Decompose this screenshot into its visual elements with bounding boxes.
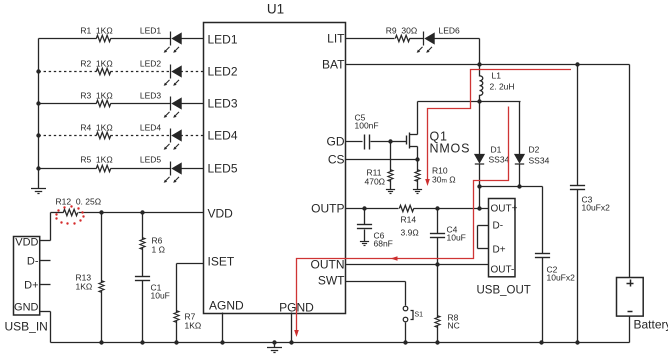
svg-text:1 Ω: 1 Ω [152, 245, 165, 255]
svg-text:LED2: LED2 [208, 65, 238, 79]
svg-text:D+: D+ [24, 280, 38, 292]
svg-text:1KΩ: 1KΩ [185, 321, 202, 331]
svg-text:NMOS: NMOS [430, 142, 471, 156]
svg-text:SS34: SS34 [489, 155, 510, 165]
svg-text:10uF: 10uF [447, 233, 466, 243]
svg-text:U1: U1 [267, 2, 284, 17]
svg-text:LED1: LED1 [208, 33, 238, 47]
svg-text:68nF: 68nF [374, 239, 393, 249]
svg-text:CS: CS [328, 153, 345, 167]
svg-text:OUT+: OUT+ [491, 204, 518, 215]
svg-text:BAT: BAT [322, 58, 345, 72]
svg-text:SS34: SS34 [529, 156, 550, 166]
svg-text:R9 30Ω: R9 30Ω [386, 26, 417, 36]
svg-text:LED4: LED4 [140, 123, 162, 133]
svg-text:OUT-: OUT- [491, 265, 515, 276]
svg-text:R4 1KΩ: R4 1KΩ [80, 123, 112, 133]
svg-text:OUTN: OUTN [311, 258, 345, 272]
svg-text:R14: R14 [401, 215, 417, 225]
svg-text:100nF: 100nF [355, 121, 379, 131]
svg-text:AGND: AGND [209, 299, 244, 313]
svg-text:D+: D+ [493, 245, 506, 256]
svg-text:R1 1KΩ: R1 1KΩ [80, 26, 112, 36]
svg-text:10uF: 10uF [151, 291, 170, 301]
svg-text:ISET: ISET [208, 255, 235, 269]
svg-text:VDD: VDD [208, 207, 234, 221]
svg-text:LED1: LED1 [140, 26, 162, 36]
svg-text:S1: S1 [415, 312, 424, 319]
svg-text:R2 1KΩ: R2 1KΩ [80, 59, 112, 69]
svg-text:10uFx2: 10uFx2 [582, 203, 611, 213]
svg-text:VDD: VDD [15, 237, 38, 249]
svg-text:LED5: LED5 [208, 162, 238, 176]
svg-text:470Ω: 470Ω [365, 177, 386, 187]
svg-text:LED5: LED5 [140, 155, 162, 165]
svg-text:LED6: LED6 [439, 26, 461, 36]
svg-text:3.9Ω: 3.9Ω [401, 228, 419, 238]
svg-text:1KΩ: 1KΩ [76, 282, 93, 292]
svg-text:R5 1KΩ: R5 1KΩ [80, 155, 112, 165]
svg-text:D1: D1 [491, 145, 502, 155]
svg-text:LED4: LED4 [208, 129, 238, 143]
svg-text:SWT: SWT [318, 274, 345, 288]
svg-text:30m Ω: 30m Ω [432, 175, 456, 185]
svg-text:LIT: LIT [327, 32, 345, 46]
svg-text:D2: D2 [529, 145, 540, 155]
svg-text:USB_IN: USB_IN [5, 320, 48, 334]
svg-text:LED2: LED2 [140, 59, 162, 69]
svg-text:Battery: Battery [634, 318, 668, 332]
svg-text:USB_OUT: USB_OUT [477, 285, 531, 297]
svg-text:D-: D- [27, 256, 39, 268]
svg-text:R3 1KΩ: R3 1KΩ [80, 91, 112, 101]
svg-text:OUTP: OUTP [311, 202, 344, 216]
svg-text:NC: NC [448, 321, 460, 331]
svg-text:LED3: LED3 [140, 91, 162, 101]
svg-text:L1: L1 [492, 71, 502, 81]
svg-text:2. 2uH: 2. 2uH [490, 82, 515, 92]
svg-text:GND: GND [14, 302, 39, 314]
svg-text:LED3: LED3 [208, 97, 238, 111]
svg-text:D-: D- [493, 221, 504, 232]
svg-text:10uFx2: 10uFx2 [547, 273, 576, 283]
svg-text:R12 0. 25Ω: R12 0. 25Ω [56, 197, 102, 207]
svg-text:GD: GD [327, 135, 345, 149]
